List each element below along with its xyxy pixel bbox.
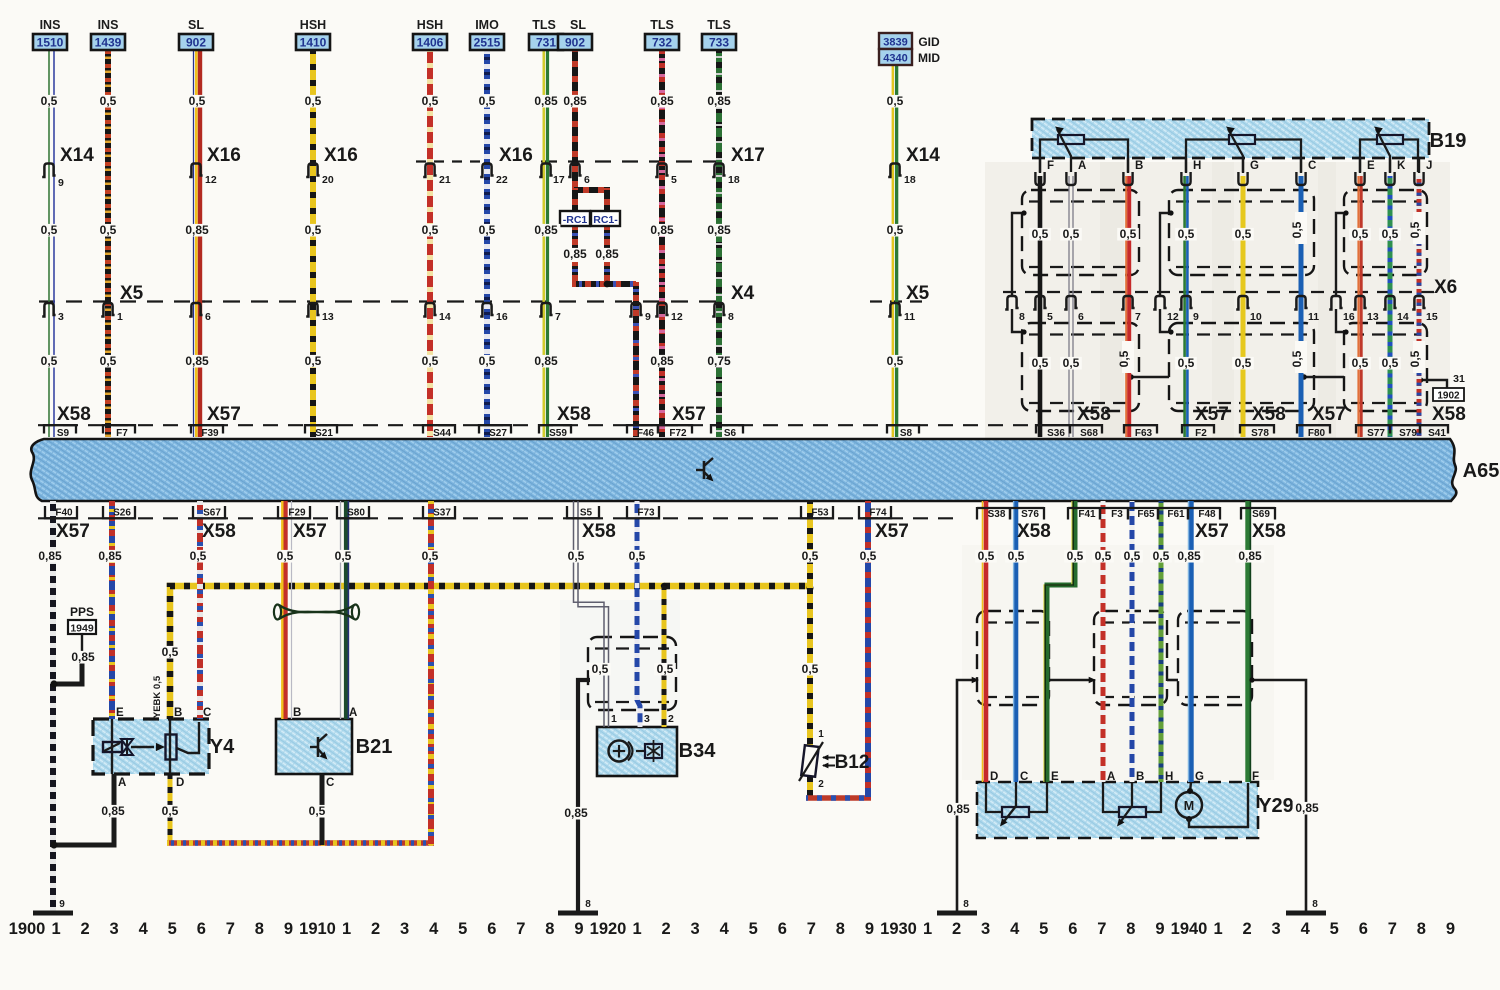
svg-text:17: 17 [553, 174, 565, 186]
svg-text:0,5: 0,5 [1235, 227, 1252, 241]
svg-text:2: 2 [818, 779, 824, 790]
svg-text:1930: 1930 [880, 920, 917, 938]
svg-text:S37: S37 [433, 508, 451, 519]
svg-text:733: 733 [709, 36, 729, 50]
svg-text:B: B [1135, 160, 1143, 172]
svg-text:0,5: 0,5 [629, 549, 646, 563]
svg-text:8: 8 [836, 920, 845, 938]
svg-text:1910: 1910 [299, 920, 336, 938]
svg-text:C: C [1020, 771, 1028, 783]
svg-text:B12: B12 [835, 752, 870, 773]
svg-text:12: 12 [205, 174, 217, 186]
svg-text:8: 8 [963, 899, 969, 910]
svg-text:F41: F41 [1078, 509, 1096, 520]
svg-text:0,5: 0,5 [41, 354, 58, 368]
svg-text:YEBK 0,5: YEBK 0,5 [152, 675, 163, 718]
svg-text:1406: 1406 [417, 36, 444, 50]
svg-text:0,85: 0,85 [534, 354, 558, 368]
svg-text:0,5: 0,5 [162, 645, 179, 659]
svg-text:HSH: HSH [417, 18, 443, 32]
svg-text:S38: S38 [988, 509, 1006, 520]
svg-text:0,5: 0,5 [162, 804, 179, 818]
svg-text:F7: F7 [116, 428, 128, 439]
svg-text:2: 2 [81, 920, 90, 938]
svg-text:Y4: Y4 [210, 736, 235, 758]
svg-text:IMO: IMO [475, 18, 499, 32]
svg-text:5: 5 [168, 920, 177, 938]
svg-text:9: 9 [1193, 311, 1199, 323]
svg-text:21: 21 [439, 174, 451, 186]
svg-text:0,5: 0,5 [422, 354, 439, 368]
svg-text:1: 1 [611, 713, 617, 725]
svg-text:7: 7 [226, 920, 235, 938]
svg-text:8: 8 [545, 920, 554, 938]
svg-text:0,85: 0,85 [563, 247, 587, 261]
svg-text:0,85: 0,85 [185, 354, 209, 368]
svg-text:0,85: 0,85 [564, 806, 588, 820]
svg-text:2: 2 [662, 920, 671, 938]
svg-text:0,85: 0,85 [650, 223, 674, 237]
svg-text:5: 5 [749, 920, 758, 938]
svg-text:13: 13 [322, 311, 334, 323]
svg-text:A: A [1078, 160, 1086, 172]
svg-text:D: D [990, 771, 998, 783]
svg-text:S27: S27 [489, 428, 507, 439]
svg-text:0,5: 0,5 [190, 549, 207, 563]
svg-text:9: 9 [1155, 920, 1164, 938]
svg-text:0,5: 0,5 [1124, 549, 1141, 563]
svg-text:F29: F29 [288, 508, 306, 519]
svg-text:B21: B21 [356, 736, 393, 758]
svg-text:0,5: 0,5 [189, 94, 206, 108]
svg-text:3: 3 [58, 311, 64, 323]
svg-text:3: 3 [644, 713, 650, 725]
svg-text:1: 1 [818, 729, 824, 740]
svg-text:0,5: 0,5 [100, 223, 117, 237]
svg-text:E: E [1367, 160, 1375, 172]
svg-text:0,5: 0,5 [1178, 227, 1195, 241]
svg-text:0,5: 0,5 [1408, 221, 1422, 238]
svg-text:4: 4 [1010, 920, 1020, 938]
svg-text:F72: F72 [669, 428, 687, 439]
svg-text:6: 6 [205, 311, 211, 323]
svg-text:S9: S9 [57, 428, 70, 439]
svg-text:7: 7 [1097, 920, 1106, 938]
svg-text:X14: X14 [60, 145, 94, 166]
svg-text:0,5: 0,5 [1382, 227, 1399, 241]
svg-text:RC1-: RC1- [593, 214, 618, 226]
svg-text:Y29: Y29 [1258, 795, 1294, 817]
svg-text:8: 8 [255, 920, 264, 938]
svg-text:-RC1: -RC1 [563, 214, 588, 226]
svg-text:11: 11 [1308, 311, 1319, 323]
svg-text:6: 6 [584, 174, 590, 186]
svg-text:S36: S36 [1047, 428, 1065, 439]
svg-text:1: 1 [51, 920, 60, 938]
svg-text:X57: X57 [1195, 521, 1229, 542]
svg-text:S67: S67 [203, 508, 221, 519]
svg-text:SL: SL [570, 18, 586, 32]
svg-text:X58: X58 [557, 404, 591, 425]
svg-text:X6: X6 [1434, 277, 1457, 298]
svg-text:9: 9 [59, 899, 65, 910]
svg-text:F63: F63 [1135, 428, 1153, 439]
svg-text:7: 7 [1135, 311, 1141, 323]
svg-text:0,85: 0,85 [946, 802, 970, 816]
svg-text:C: C [326, 777, 334, 789]
svg-text:8: 8 [1019, 311, 1025, 323]
svg-text:5: 5 [458, 920, 467, 938]
svg-text:11: 11 [904, 311, 915, 323]
svg-text:0,5: 0,5 [1352, 356, 1369, 370]
svg-text:5: 5 [1047, 311, 1053, 323]
svg-text:TLS: TLS [650, 18, 674, 32]
svg-text:0,5: 0,5 [422, 94, 439, 108]
svg-text:X58: X58 [1432, 404, 1466, 425]
svg-text:K: K [1397, 160, 1406, 172]
svg-text:X58: X58 [57, 404, 91, 425]
svg-text:0,5: 0,5 [277, 549, 294, 563]
svg-text:1900: 1900 [9, 920, 46, 938]
svg-text:0,5: 0,5 [1235, 356, 1252, 370]
svg-text:0,5: 0,5 [100, 94, 117, 108]
svg-text:6: 6 [197, 920, 206, 938]
svg-text:F40: F40 [55, 508, 73, 519]
svg-text:0,5: 0,5 [309, 804, 326, 818]
svg-text:7: 7 [807, 920, 816, 938]
svg-text:B34: B34 [679, 740, 717, 762]
svg-text:0,85: 0,85 [71, 650, 95, 664]
svg-text:X57: X57 [875, 521, 909, 542]
svg-text:0,5: 0,5 [479, 354, 496, 368]
svg-text:0,5: 0,5 [887, 94, 904, 108]
svg-text:0,85: 0,85 [1177, 549, 1201, 563]
svg-text:0,5: 0,5 [887, 223, 904, 237]
svg-text:0,5: 0,5 [1063, 356, 1080, 370]
svg-text:3: 3 [981, 920, 990, 938]
svg-text:9: 9 [58, 177, 64, 189]
svg-text:2: 2 [1243, 920, 1252, 938]
svg-text:1920: 1920 [590, 920, 627, 938]
svg-text:2: 2 [952, 920, 961, 938]
svg-text:X16: X16 [499, 145, 533, 166]
svg-text:4: 4 [429, 920, 439, 938]
svg-text:0,5: 0,5 [1008, 549, 1025, 563]
svg-text:18: 18 [728, 174, 740, 186]
svg-text:X58: X58 [1252, 404, 1286, 425]
svg-text:16: 16 [496, 311, 508, 323]
svg-text:S79: S79 [1399, 428, 1417, 439]
svg-text:4: 4 [139, 920, 149, 938]
svg-text:A65: A65 [1463, 460, 1500, 482]
svg-text:0,5: 0,5 [1063, 227, 1080, 241]
svg-text:6: 6 [1359, 920, 1368, 938]
svg-text:A: A [118, 777, 126, 789]
svg-text:0,5: 0,5 [305, 223, 322, 237]
svg-text:3: 3 [691, 920, 700, 938]
svg-text:MID: MID [918, 51, 940, 65]
svg-text:902: 902 [565, 36, 585, 50]
svg-text:0,5: 0,5 [422, 223, 439, 237]
svg-text:18: 18 [904, 174, 916, 186]
svg-text:SL: SL [188, 18, 204, 32]
svg-text:S44: S44 [433, 428, 451, 439]
svg-text:3839: 3839 [883, 37, 907, 49]
svg-text:0,5: 0,5 [479, 223, 496, 237]
svg-text:0,85: 0,85 [650, 354, 674, 368]
svg-text:D: D [176, 777, 184, 789]
svg-text:0,5: 0,5 [1153, 549, 1170, 563]
svg-text:X57: X57 [1312, 404, 1346, 425]
svg-text:31: 31 [1453, 373, 1465, 385]
svg-text:8: 8 [1312, 899, 1318, 910]
svg-text:16: 16 [1343, 311, 1355, 323]
svg-text:0,5: 0,5 [1178, 356, 1195, 370]
svg-text:B19: B19 [1430, 130, 1467, 152]
svg-text:F46: F46 [637, 428, 655, 439]
svg-text:0,5: 0,5 [1067, 549, 1084, 563]
svg-text:F48: F48 [1198, 509, 1216, 520]
svg-text:S80: S80 [347, 508, 365, 519]
svg-text:15: 15 [1426, 311, 1438, 323]
svg-text:M: M [1184, 799, 1194, 813]
svg-text:1410: 1410 [300, 36, 327, 50]
svg-text:1: 1 [1213, 920, 1222, 938]
svg-text:732: 732 [652, 36, 672, 50]
svg-text:X57: X57 [207, 404, 241, 425]
svg-text:10: 10 [1250, 311, 1262, 323]
svg-text:X4: X4 [731, 283, 755, 304]
svg-text:X58: X58 [202, 521, 236, 542]
svg-text:X5: X5 [120, 283, 144, 304]
svg-text:0,85: 0,85 [98, 549, 122, 563]
svg-text:0,5: 0,5 [100, 354, 117, 368]
svg-text:9: 9 [865, 920, 874, 938]
svg-text:1439: 1439 [95, 36, 122, 50]
svg-text:0,5: 0,5 [1290, 350, 1304, 367]
svg-text:S69: S69 [1252, 509, 1270, 520]
svg-text:7: 7 [555, 311, 561, 323]
svg-text:G: G [1195, 771, 1204, 783]
svg-text:1510: 1510 [37, 36, 64, 50]
svg-text:TLS: TLS [532, 18, 556, 32]
svg-text:F53: F53 [811, 508, 829, 519]
svg-text:3: 3 [1272, 920, 1281, 938]
svg-text:22: 22 [496, 174, 508, 186]
svg-text:0,5: 0,5 [978, 549, 995, 563]
svg-text:0,5: 0,5 [657, 662, 674, 676]
svg-text:0,85: 0,85 [185, 223, 209, 237]
svg-text:0,5: 0,5 [1352, 227, 1369, 241]
svg-text:14: 14 [1397, 311, 1409, 323]
svg-text:0,85: 0,85 [650, 94, 674, 108]
svg-text:GID: GID [918, 35, 940, 49]
svg-text:3: 3 [110, 920, 119, 938]
svg-text:0,5: 0,5 [305, 354, 322, 368]
svg-text:8: 8 [1417, 920, 1426, 938]
svg-text:0,5: 0,5 [41, 94, 58, 108]
svg-text:731: 731 [536, 36, 556, 50]
svg-text:0,5: 0,5 [1382, 356, 1399, 370]
svg-text:0,5: 0,5 [568, 549, 585, 563]
svg-text:H: H [1193, 160, 1201, 172]
svg-text:1949: 1949 [70, 623, 94, 635]
svg-text:1: 1 [117, 311, 123, 323]
svg-text:X5: X5 [906, 283, 930, 304]
svg-text:0,85: 0,85 [534, 223, 558, 237]
svg-text:X16: X16 [207, 145, 241, 166]
svg-text:S76: S76 [1021, 509, 1039, 520]
svg-text:C: C [203, 707, 211, 719]
svg-text:F: F [1047, 160, 1054, 172]
svg-text:2515: 2515 [474, 36, 501, 50]
svg-text:E: E [1051, 771, 1059, 783]
svg-text:0,85: 0,85 [595, 247, 619, 261]
svg-text:0,5: 0,5 [41, 223, 58, 237]
svg-text:0,5: 0,5 [479, 94, 496, 108]
svg-text:0,5: 0,5 [1095, 549, 1112, 563]
svg-text:A: A [349, 707, 357, 719]
svg-text:J: J [1426, 160, 1432, 172]
svg-text:6: 6 [1068, 920, 1077, 938]
svg-text:X16: X16 [324, 145, 358, 166]
svg-text:X57: X57 [293, 521, 327, 542]
svg-text:S77: S77 [1367, 428, 1385, 439]
svg-text:S41: S41 [1428, 428, 1446, 439]
svg-text:0,5: 0,5 [860, 549, 877, 563]
svg-text:12: 12 [1167, 311, 1179, 323]
svg-text:S78: S78 [1251, 428, 1269, 439]
svg-text:20: 20 [322, 174, 334, 186]
svg-text:B: B [1136, 771, 1144, 783]
svg-text:X58: X58 [1077, 404, 1111, 425]
svg-text:3: 3 [400, 920, 409, 938]
svg-text:B: B [174, 707, 182, 719]
svg-text:6: 6 [487, 920, 496, 938]
svg-text:0,5: 0,5 [1117, 350, 1131, 367]
svg-text:8: 8 [1126, 920, 1135, 938]
svg-text:2: 2 [371, 920, 380, 938]
svg-text:0,5: 0,5 [1032, 356, 1049, 370]
svg-text:S26: S26 [113, 508, 131, 519]
svg-text:9: 9 [1446, 920, 1455, 938]
svg-text:S6: S6 [724, 428, 737, 439]
svg-text:4: 4 [720, 920, 730, 938]
svg-text:X58: X58 [1017, 521, 1051, 542]
svg-text:0,85: 0,85 [101, 804, 125, 818]
svg-text:X57: X57 [672, 404, 706, 425]
svg-text:0,5: 0,5 [592, 662, 609, 676]
svg-text:2: 2 [668, 713, 674, 725]
svg-text:F74: F74 [869, 508, 887, 519]
svg-text:S21: S21 [315, 428, 333, 439]
svg-text:B: B [293, 707, 301, 719]
svg-text:G: G [1250, 160, 1259, 172]
svg-text:7: 7 [516, 920, 525, 938]
svg-text:X57: X57 [56, 521, 90, 542]
svg-text:F61: F61 [1167, 509, 1185, 520]
svg-text:E: E [116, 707, 124, 719]
svg-text:0,5: 0,5 [422, 549, 439, 563]
svg-text:5: 5 [671, 174, 677, 186]
svg-text:INS: INS [40, 18, 61, 32]
svg-text:F73: F73 [637, 508, 655, 519]
svg-text:F80: F80 [1308, 428, 1326, 439]
svg-text:X58: X58 [582, 521, 616, 542]
svg-text:14: 14 [439, 311, 451, 323]
svg-text:0,5: 0,5 [1120, 227, 1137, 241]
svg-text:6: 6 [1078, 311, 1084, 323]
svg-text:0,75: 0,75 [707, 354, 731, 368]
svg-text:1902: 1902 [1437, 391, 1460, 402]
svg-text:F3: F3 [1111, 509, 1123, 520]
svg-text:5: 5 [1039, 920, 1048, 938]
svg-text:F39: F39 [201, 428, 219, 439]
svg-text:INS: INS [98, 18, 119, 32]
svg-text:5: 5 [1330, 920, 1339, 938]
svg-text:7: 7 [1388, 920, 1397, 938]
svg-text:0,5: 0,5 [802, 662, 819, 676]
svg-text:1: 1 [923, 920, 932, 938]
svg-text:0,85: 0,85 [534, 94, 558, 108]
svg-text:HSH: HSH [300, 18, 326, 32]
svg-text:4340: 4340 [883, 53, 907, 65]
svg-text:0,85: 0,85 [707, 94, 731, 108]
svg-text:H: H [1165, 771, 1173, 783]
svg-text:0,5: 0,5 [335, 549, 352, 563]
svg-text:1: 1 [632, 920, 641, 938]
svg-text:6: 6 [778, 920, 787, 938]
svg-text:A: A [1107, 771, 1115, 783]
svg-text:0,5: 0,5 [887, 354, 904, 368]
svg-text:9: 9 [574, 920, 583, 938]
svg-text:0,85: 0,85 [1238, 549, 1262, 563]
svg-text:902: 902 [186, 36, 206, 50]
svg-text:8: 8 [728, 311, 734, 323]
svg-text:9: 9 [284, 920, 293, 938]
svg-text:S5: S5 [580, 508, 593, 519]
svg-text:8: 8 [585, 899, 591, 910]
svg-text:F: F [1252, 771, 1259, 783]
svg-text:0,85: 0,85 [563, 94, 587, 108]
svg-text:X58: X58 [1252, 521, 1286, 542]
svg-text:4: 4 [1301, 920, 1311, 938]
svg-text:0,85: 0,85 [38, 549, 62, 563]
svg-text:PPS: PPS [70, 605, 94, 619]
svg-text:X17: X17 [731, 145, 765, 166]
svg-text:12: 12 [671, 311, 683, 323]
svg-text:S8: S8 [900, 428, 913, 439]
svg-text:F2: F2 [1195, 428, 1207, 439]
svg-text:0,85: 0,85 [1295, 801, 1319, 815]
svg-text:0,5: 0,5 [305, 94, 322, 108]
svg-text:S59: S59 [549, 428, 567, 439]
svg-text:0,5: 0,5 [802, 549, 819, 563]
svg-text:TLS: TLS [707, 18, 731, 32]
svg-text:0,5: 0,5 [1290, 221, 1304, 238]
svg-text:0,85: 0,85 [707, 223, 731, 237]
svg-text:S68: S68 [1080, 428, 1098, 439]
svg-text:C: C [1308, 160, 1316, 172]
svg-text:0,5: 0,5 [1032, 227, 1049, 241]
svg-text:0,5: 0,5 [1408, 350, 1422, 367]
svg-text:1940: 1940 [1171, 920, 1208, 938]
svg-text:9: 9 [645, 311, 651, 323]
svg-text:1: 1 [342, 920, 351, 938]
svg-text:F65: F65 [1137, 509, 1155, 520]
svg-text:X57: X57 [1195, 404, 1229, 425]
svg-text:13: 13 [1367, 311, 1379, 323]
